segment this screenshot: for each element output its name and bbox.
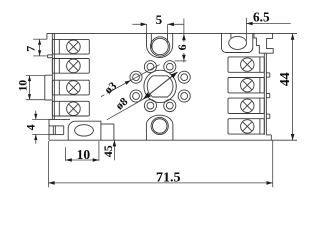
svg-text:7: 7 [23,46,37,52]
svg-text:44: 44 [277,72,292,86]
svg-text:6: 6 [175,44,189,50]
svg-text:10: 10 [77,147,91,162]
svg-text:6.5: 6.5 [253,10,270,25]
svg-text:71.5: 71.5 [156,170,181,185]
svg-text:45: 45 [101,145,115,157]
svg-text:4: 4 [26,124,38,130]
svg-text:10: 10 [17,80,29,92]
svg-text:5: 5 [156,12,163,27]
